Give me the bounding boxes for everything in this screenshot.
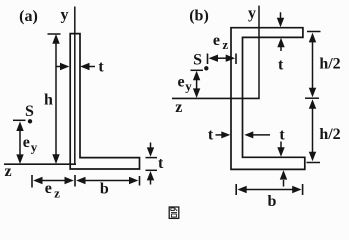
dimension t (a, flange right): up arrow xyxy=(147,171,154,185)
y axis line (a) xyxy=(74,7,76,164)
svg-text:e: e xyxy=(213,32,220,49)
svg-text:S: S xyxy=(193,52,202,69)
svg-text:h/2: h/2 xyxy=(319,126,340,143)
figure caption glyph (CJK) xyxy=(169,207,179,218)
svg-text:z: z xyxy=(222,37,228,52)
dimension b (a): double arrow xyxy=(76,177,138,184)
dimension b (b): right tick xyxy=(302,184,304,195)
dimension t (b, web): left-pointing arrow xyxy=(244,131,270,138)
svg-text:t: t xyxy=(278,57,284,74)
svg-text:t: t xyxy=(158,155,164,172)
dimension e_z (b): right tick at web centerline xyxy=(235,54,237,65)
angle section outline (a) xyxy=(70,34,139,169)
channel section outline (b) xyxy=(231,28,305,170)
dimension h/2 (b): middle tick xyxy=(305,97,319,99)
svg-text:t: t xyxy=(279,126,285,143)
svg-text:z: z xyxy=(175,99,182,116)
svg-text:y: y xyxy=(248,5,256,22)
svg-text:t: t xyxy=(98,59,104,76)
svg-text:y: y xyxy=(185,78,192,93)
dimension middle tick at leg centerline (a) xyxy=(74,175,76,187)
dimension b (b): double arrow xyxy=(237,186,301,193)
dimension t (a, flange right): down arrow xyxy=(147,143,154,157)
dimension e_z (a): left tick xyxy=(31,175,33,188)
dimension e_y (a): arrow line xyxy=(16,121,23,164)
dimension t (a, flange right): bottom tick xyxy=(146,169,158,171)
dimension b (b): left tick xyxy=(235,184,237,195)
svg-text:h: h xyxy=(44,92,53,109)
z axis line (a) xyxy=(4,163,76,165)
dimension h: arrow line xyxy=(52,34,59,164)
dimension h/2 (b): upper arrow segment xyxy=(309,33,316,98)
dimension t (b, top flange): up arrow xyxy=(277,38,284,51)
dimension e_z (b): double arrow xyxy=(209,55,236,62)
shear center dot S (a) xyxy=(28,119,32,123)
svg-text:h/2: h/2 xyxy=(319,56,340,73)
svg-text:e: e xyxy=(45,180,52,197)
svg-text:S: S xyxy=(25,103,34,120)
dimension e_y (a): top tick xyxy=(13,119,26,121)
dimension h/2 (b): bottom tick xyxy=(307,162,321,164)
svg-text:z: z xyxy=(54,186,60,201)
dimension e_z (b): left tick xyxy=(207,54,209,65)
dimension t (b, top flange): down arrow xyxy=(277,12,284,27)
dimension t (a, top): right arrow xyxy=(80,63,95,70)
svg-text:e: e xyxy=(177,73,184,90)
dimension t (b, web): right-pointing arrow xyxy=(216,131,231,138)
dimension t (b, bottom flange): up arrow xyxy=(280,170,287,186)
svg-text:e: e xyxy=(23,134,30,151)
dimension h/2 (b): top tick xyxy=(307,31,321,33)
dimension t (b, bottom flange): down arrow xyxy=(277,142,284,157)
svg-text:(b): (b) xyxy=(189,8,209,25)
svg-text:b: b xyxy=(268,193,277,210)
svg-text:y: y xyxy=(61,7,69,24)
svg-text:b: b xyxy=(100,181,109,198)
tick under S (b) xyxy=(191,69,204,71)
dimension e_z (a): double arrow xyxy=(33,177,74,184)
dimension t (a, top): left arrow xyxy=(57,63,70,70)
svg-text:y: y xyxy=(31,140,38,155)
svg-text:z: z xyxy=(4,163,11,180)
z axis line (b) xyxy=(172,97,260,99)
dimension t (a, flange right): top tick xyxy=(146,157,158,159)
dimension b (a): right tick xyxy=(139,176,141,186)
dimension h/2 (b): lower arrow segment xyxy=(309,99,316,161)
dimension h: top tick xyxy=(48,33,61,35)
dimension e_y (b): arrow line xyxy=(193,71,200,98)
svg-text:(a): (a) xyxy=(19,8,38,25)
svg-text:t: t xyxy=(208,126,214,143)
y axis line (b) xyxy=(258,6,260,99)
shear center dot S (b) xyxy=(204,66,208,70)
